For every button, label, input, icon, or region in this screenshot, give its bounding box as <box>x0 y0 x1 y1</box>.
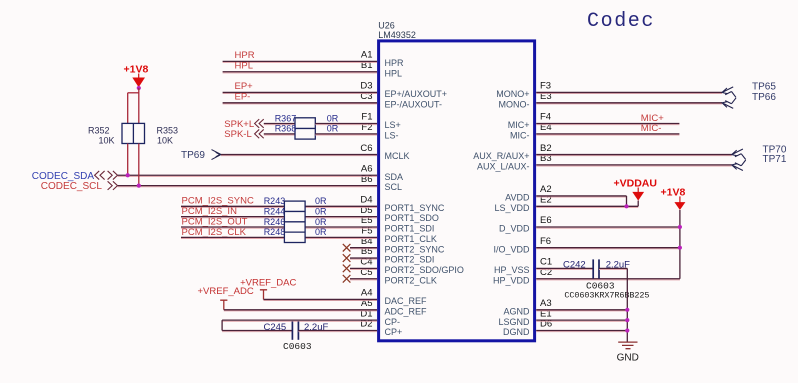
svg-text:LSGND: LSGND <box>498 317 530 327</box>
svg-text:SPK-L: SPK-L <box>224 129 251 140</box>
svg-text:C242: C242 <box>563 259 586 270</box>
test point TP65 arrow <box>722 87 736 98</box>
svg-text:HPL: HPL <box>385 68 403 78</box>
wire TP69 to pin C6 <box>221 155 377 157</box>
junction LSGND/GND rail <box>625 318 629 322</box>
svg-text:PORT2_SDI: PORT2_SDI <box>385 255 435 265</box>
wire +VREF_ADC to pin A5 <box>224 310 377 312</box>
wire pin C2 (HP_VDD) to +1V8 rail <box>536 279 680 281</box>
capacitor C245 plates <box>291 321 293 339</box>
wire HPL to pin B1 <box>223 72 377 74</box>
wire pin F6 (I/O_VDD) <box>536 248 680 250</box>
svg-text:A1: A1 <box>361 50 373 61</box>
op-amp U26 LM49352 codec IC body <box>379 41 535 341</box>
svg-text:EP+: EP+ <box>235 81 254 92</box>
svg-text:CODEC_SCL: CODEC_SCL <box>41 181 103 192</box>
wire R243 to pin D4 <box>305 206 377 208</box>
wire pin E6 (D_VDD) <box>536 227 680 229</box>
svg-text:CODEC_SDA: CODEC_SDA <box>32 171 95 182</box>
svg-text:C0603: C0603 <box>283 341 312 352</box>
svg-text:0R: 0R <box>327 124 339 134</box>
capacitor C242 plates <box>592 259 594 278</box>
svg-text:PCM_I2S_CLK: PCM_I2S_CLK <box>182 227 247 238</box>
junction AGND/GND rail <box>625 308 629 312</box>
wire CP+ row to C245 left plate <box>222 331 292 333</box>
svg-text:C245: C245 <box>264 322 287 333</box>
off-page chevrons SPK+L <box>255 119 264 128</box>
off-page connector CODEC_SCL <box>108 181 118 190</box>
junction DGND/GND rail <box>625 328 629 332</box>
wire pin E4 (MIC-) <box>536 134 679 136</box>
wire +1V8 rail vertical <box>679 210 681 279</box>
svg-text:R248: R248 <box>264 227 286 237</box>
resistor pair R352/R353 body <box>122 123 145 143</box>
svg-text:R368: R368 <box>275 124 297 134</box>
svg-text:C6: C6 <box>360 143 372 154</box>
svg-text:PORT2_CLK: PORT2_CLK <box>385 275 437 285</box>
svg-text:CC0603KRX7R6BB225: CC0603KRX7R6BB225 <box>564 290 649 300</box>
svg-text:0R: 0R <box>315 217 327 227</box>
svg-text:CP-: CP- <box>385 317 401 327</box>
resistor array R367/R368 body <box>295 118 315 139</box>
svg-text:PORT2_SYNC: PORT2_SYNC <box>385 244 445 254</box>
wire CODEC_SCL to pin B6 <box>118 186 377 188</box>
svg-text:10K: 10K <box>99 135 115 145</box>
junction AVDD/LS_VDD <box>624 204 628 208</box>
no-connect X pin C5 <box>343 275 351 283</box>
svg-text:MIC+: MIC+ <box>641 113 664 124</box>
wire C242 right plate to GND rail <box>599 269 627 271</box>
svg-text:SCL: SCL <box>385 182 403 192</box>
wire CP- down to CP+ row <box>221 320 223 330</box>
svg-text:R352: R352 <box>88 125 110 135</box>
wire R246 to pin E5 <box>305 227 377 229</box>
wire pin B2 (AUX_R) to TP70 <box>536 155 732 157</box>
svg-text:TP69: TP69 <box>181 150 205 161</box>
wire R248 to pin F5 <box>305 238 377 240</box>
svg-text:R246: R246 <box>264 217 286 227</box>
wire pin D6 (DGND) <box>536 331 627 333</box>
svg-text:A2: A2 <box>540 184 552 195</box>
svg-text:F6: F6 <box>540 236 551 247</box>
wire EP+ to pin D3 <box>223 93 377 95</box>
test point TP69 arrow symbol <box>212 150 222 160</box>
wire PCM_I2S_CLK to R248 <box>181 238 284 240</box>
svg-text:PCM_I2S_SYNC: PCM_I2S_SYNC <box>182 196 254 207</box>
svg-text:R244: R244 <box>264 207 286 217</box>
svg-text:R353: R353 <box>157 125 179 135</box>
junction R352/SDA <box>126 173 130 177</box>
svg-text:LM49352: LM49352 <box>378 30 416 40</box>
junction I/O_VDD/+1V8 <box>678 246 682 250</box>
svg-text:TP71: TP71 <box>763 154 787 165</box>
wire PCM_I2S_OUT to R246 <box>181 227 284 229</box>
svg-text:LS_VDD: LS_VDD <box>494 203 530 213</box>
wire R244 to pin D5 <box>305 217 377 219</box>
no-connect X pin C4 <box>343 265 351 273</box>
svg-text:AUX_L/AUX-: AUX_L/AUX- <box>477 162 530 172</box>
svg-text:+1V8: +1V8 <box>124 64 149 76</box>
wire pin F3 (MONO+) to TP65 <box>536 93 722 95</box>
svg-text:HPR: HPR <box>385 58 405 68</box>
svg-text:A4: A4 <box>361 288 373 299</box>
wire pin A2 (AVDD) <box>536 196 626 198</box>
wire R367 to pin F1 <box>315 124 377 126</box>
wire pin C1 (HP_VSS) to C242 <box>536 269 593 271</box>
test point TP66 arrow <box>722 98 736 109</box>
wire EP- to pin C3 <box>223 103 377 105</box>
svg-text:10K: 10K <box>157 135 173 145</box>
wire SPK-L to R368 <box>264 134 295 136</box>
no-connect stub pin B4 <box>350 248 377 250</box>
no-connect stub pin C4 <box>350 269 377 271</box>
svg-text:MCLK: MCLK <box>385 151 410 161</box>
svg-text:+VREF_ADC: +VREF_ADC <box>198 286 254 297</box>
wire R368 to pin F2 <box>315 134 377 136</box>
wire R352 to CODEC_SDA <box>127 144 129 176</box>
off-page chevrons SPK-L <box>255 129 264 138</box>
junction D_VDD/+1V8 <box>678 225 682 229</box>
svg-text:EP-/AUXOUT-: EP-/AUXOUT- <box>385 99 443 109</box>
test point TP70 arrow <box>732 149 746 160</box>
svg-text:EP+/AUXOUT+: EP+/AUXOUT+ <box>385 89 448 99</box>
svg-text:DAC_REF: DAC_REF <box>385 296 428 306</box>
no-connect stub pin C5 <box>350 279 377 281</box>
svg-text:MIC+: MIC+ <box>508 120 530 130</box>
svg-text:0R: 0R <box>315 196 327 206</box>
svg-text:0R: 0R <box>315 207 327 217</box>
svg-text:LS-: LS- <box>385 130 399 140</box>
svg-text:PORT2_SDO/GPIO: PORT2_SDO/GPIO <box>385 265 464 275</box>
wire +VREF_DAC to pin A4 <box>264 300 378 302</box>
svg-text:MIC-: MIC- <box>641 123 662 134</box>
svg-text:TP66: TP66 <box>752 92 776 103</box>
svg-text:0R: 0R <box>327 113 339 123</box>
svg-text:DGND: DGND <box>503 327 530 337</box>
wire AVDD down to LS_VDD row <box>626 196 628 206</box>
off-page connector CODEC_SDA <box>95 171 105 180</box>
svg-text:LS+: LS+ <box>385 120 401 130</box>
svg-text:GND: GND <box>617 353 639 364</box>
junction R353/SCL <box>137 184 141 188</box>
svg-text:TP65: TP65 <box>752 82 776 93</box>
svg-text:MONO-: MONO- <box>499 99 530 109</box>
wire pin B3 (AUX_L) to TP71 <box>536 165 732 167</box>
ground symbol GND <box>618 342 637 349</box>
svg-text:PORT1_SDO: PORT1_SDO <box>385 213 439 223</box>
no-connect X pin B5 <box>343 254 351 262</box>
svg-text:+VDDAU: +VDDAU <box>614 178 657 190</box>
svg-text:SDA: SDA <box>385 172 404 182</box>
wire PCM_I2S_IN to R244 <box>181 217 284 219</box>
wire pin E3 (MONO-) to TP66 <box>536 103 722 105</box>
svg-text:I/O_VDD: I/O_VDD <box>493 244 530 254</box>
wire PCM_I2S_SYNC to R243 <box>181 206 284 208</box>
svg-text:AGND: AGND <box>503 306 530 316</box>
svg-text:PORT1_CLK: PORT1_CLK <box>385 234 437 244</box>
wire pin F4 (MIC+) <box>536 124 679 126</box>
wire HPR to pin A1 <box>223 62 377 64</box>
wire pin E1 (LSGND) <box>536 320 627 322</box>
no-connect stub pin B5 <box>350 258 377 260</box>
svg-text:AVDD: AVDD <box>505 193 530 203</box>
svg-text:R367: R367 <box>275 113 297 123</box>
svg-text:HP_VSS: HP_VSS <box>494 265 530 275</box>
svg-text:PORT1_SDI: PORT1_SDI <box>385 224 435 234</box>
svg-text:ADC_REF: ADC_REF <box>385 306 428 316</box>
svg-text:0R: 0R <box>315 227 327 237</box>
svg-text:PORT1_SYNC: PORT1_SYNC <box>385 203 445 213</box>
wire GND rail vertical <box>626 268 628 342</box>
svg-text:+1V8: +1V8 <box>661 186 686 198</box>
wire pin E2 (LS_VDD) to +VDDAU <box>536 206 638 208</box>
svg-text:EP-: EP- <box>235 92 251 103</box>
svg-text:AUX_R/AUX+: AUX_R/AUX+ <box>473 151 529 161</box>
svg-text:HP_VDD: HP_VDD <box>493 275 530 285</box>
svg-text:HPL: HPL <box>235 61 253 72</box>
svg-text:Codec: Codec <box>587 10 655 33</box>
svg-text:D_VDD: D_VDD <box>499 224 530 234</box>
wire SPK+L to R367 <box>264 124 295 126</box>
svg-text:MONO+: MONO+ <box>496 89 529 99</box>
no-connect X pin B4 <box>343 244 351 252</box>
svg-text:E6: E6 <box>540 215 552 226</box>
svg-text:CP+: CP+ <box>385 327 403 337</box>
svg-text:PCM_I2S_OUT: PCM_I2S_OUT <box>182 216 248 227</box>
wire pin D1 (CP-) to C245 <box>222 320 377 322</box>
wire R353 to CODEC_SCL <box>138 144 140 186</box>
svg-text:R243: R243 <box>264 196 286 206</box>
wire CODEC_SDA to pin A6 <box>118 175 377 177</box>
test point TP71 arrow <box>732 160 746 171</box>
svg-text:MIC-: MIC- <box>510 130 530 140</box>
resistor array R243/R244/R246/R248 body <box>284 201 305 242</box>
wire pin A3 (AGND) <box>536 310 627 312</box>
wire C245 right plate to pin D2 <box>298 331 377 333</box>
svg-text:A6: A6 <box>361 163 373 174</box>
wire +1V8 to R352/R353 tops <box>138 88 140 123</box>
junction +1V8 to resistors <box>137 86 141 90</box>
